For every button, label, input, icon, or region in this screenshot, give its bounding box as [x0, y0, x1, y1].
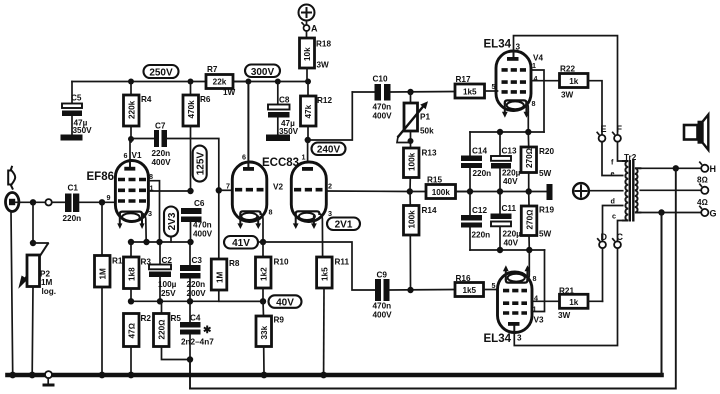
- node V2a grid junction: [216, 187, 222, 193]
- supply terminal +: [299, 5, 315, 21]
- svg-text:220n: 220n: [63, 214, 82, 223]
- wire V2a cathode down: [261, 214, 263, 243]
- wire secondary top to H: [640, 167, 701, 169]
- resistor R13 100k: [404, 148, 437, 192]
- node 2V3 label (vertical): [164, 207, 178, 243]
- wire C to primary tap c: [618, 221, 623, 242]
- wire pin8 suppressor to cathode node: [149, 181, 160, 242]
- svg-text:C5: C5: [71, 94, 82, 103]
- capacitor C8 47u 350V: [266, 82, 299, 142]
- resistor R9 33k: [256, 301, 284, 373]
- chassis bar terminal: [547, 184, 553, 200]
- resistor R15 100k: [410, 176, 470, 199]
- svg-text:G: G: [710, 209, 717, 219]
- wire feedback line: [190, 168, 676, 388]
- svg-text:3: 3: [148, 209, 152, 218]
- svg-text:c: c: [612, 212, 616, 221]
- tube EL34 V3: [484, 265, 544, 345]
- node R5/C4 feedback junction: [187, 356, 193, 362]
- node C terminal: [613, 232, 624, 248]
- node R18/R12 junction: [305, 79, 311, 85]
- capacitor C12 220n: [461, 192, 490, 251]
- wire B+ to primary center tap: [589, 190, 623, 192]
- svg-text:6: 6: [124, 151, 128, 160]
- svg-text:33k: 33k: [260, 325, 269, 339]
- svg-text:C4: C4: [190, 314, 201, 323]
- node C8 junction: [275, 79, 281, 85]
- svg-text:D: D: [601, 232, 608, 242]
- svg-text:E: E: [601, 124, 607, 134]
- node bus jack ground: [9, 372, 16, 379]
- svg-text:40V: 40V: [503, 177, 518, 186]
- tube ECC83 V2b: [291, 153, 332, 230]
- wire V3 anode to transformer: [514, 248, 617, 345]
- capacitor C3 220n 200V: [180, 242, 206, 301]
- wire input to P2: [32, 202, 34, 243]
- svg-text:1k2: 1k2: [260, 267, 269, 281]
- resistor R8 1M: [211, 190, 263, 301]
- node A terminal: [302, 23, 318, 34]
- resistor R5 220ohm: [154, 301, 191, 359]
- resistor R3 1k8: [124, 242, 152, 301]
- svg-text:8Ω: 8Ω: [697, 176, 708, 185]
- ground bus: [8, 373, 662, 378]
- wire V4 g2 pin4 to R22: [531, 80, 560, 82]
- svg-text:2: 2: [328, 182, 332, 191]
- resistor R6 470k: [183, 82, 211, 192]
- resistor R7 22k 1W: [206, 65, 248, 97]
- capacitor C7 220n 400V: [131, 122, 219, 191]
- svg-text:3: 3: [517, 334, 522, 343]
- svg-text:3W: 3W: [317, 61, 330, 70]
- svg-text:C9: C9: [377, 271, 388, 280]
- svg-text:5W: 5W: [539, 230, 552, 239]
- node 40V label: [269, 295, 302, 308]
- svg-text:1k5: 1k5: [463, 87, 477, 96]
- wire jack to junction: [15, 201, 45, 203]
- wire V3 cathode up: [527, 250, 529, 281]
- svg-text:C1: C1: [68, 184, 79, 193]
- svg-text:C13: C13: [502, 147, 517, 156]
- wire cathode line to C14: [469, 132, 471, 156]
- svg-text:e: e: [611, 169, 615, 178]
- wire V4 cathode down: [526, 102, 528, 132]
- svg-text:3W: 3W: [558, 311, 571, 320]
- node feedback junction: [673, 165, 679, 171]
- svg-text:V1: V1: [132, 151, 142, 160]
- svg-text:100k: 100k: [408, 210, 417, 229]
- node 2V1 label: [327, 218, 360, 231]
- svg-text:P1: P1: [420, 113, 430, 122]
- node bus R2: [128, 372, 135, 379]
- svg-text:2V3: 2V3: [167, 212, 178, 230]
- node cathode line EF86: [131, 241, 191, 243]
- svg-text:1M: 1M: [215, 271, 224, 283]
- svg-text:C8: C8: [279, 96, 290, 105]
- svg-text:R6: R6: [200, 95, 211, 104]
- svg-text:220µ: 220µ: [503, 230, 522, 239]
- input arrow icon: [8, 166, 15, 190]
- svg-text:8: 8: [269, 208, 273, 217]
- wire 240V node to C10: [308, 92, 353, 140]
- svg-text:R18: R18: [316, 40, 331, 49]
- svg-text:9: 9: [107, 193, 111, 202]
- svg-text:400V: 400V: [193, 230, 213, 239]
- node 40V rail (output stage): [456, 191, 548, 193]
- node 300V label: [245, 65, 280, 78]
- capacitor C14 220n: [461, 147, 491, 192]
- svg-text:6: 6: [242, 153, 246, 162]
- capacitor C1 220n: [63, 184, 82, 224]
- svg-text:1k: 1k: [569, 298, 579, 307]
- svg-text:H: H: [710, 164, 717, 174]
- capacitor C13 220u 40V: [491, 132, 521, 192]
- svg-text:250V: 250V: [149, 68, 173, 79]
- svg-text:220Ω: 220Ω: [158, 320, 167, 340]
- wire cathode pin3 down: [142, 213, 146, 242]
- svg-text:R10: R10: [274, 258, 289, 267]
- svg-text:C7: C7: [155, 122, 166, 131]
- node screen junction: [187, 188, 193, 194]
- svg-text:300V: 300V: [251, 67, 275, 78]
- node 240V junction: [305, 137, 311, 143]
- node 41V junction: [260, 239, 266, 245]
- svg-text:A: A: [311, 24, 318, 34]
- svg-text:470n: 470n: [193, 221, 212, 230]
- node EF86 anode junction: [128, 136, 134, 142]
- svg-text:R17: R17: [456, 75, 471, 84]
- svg-text:1M: 1M: [99, 268, 108, 280]
- node 4ohm terminal: [697, 184, 708, 207]
- svg-text:1M: 1M: [41, 278, 53, 287]
- node bus R11: [320, 372, 327, 379]
- svg-text:R2: R2: [141, 314, 152, 323]
- wire R18 to rail: [306, 68, 308, 82]
- svg-text:25V: 25V: [161, 289, 176, 298]
- svg-text:R19: R19: [539, 206, 554, 215]
- svg-text:400V: 400V: [373, 311, 393, 320]
- svg-text:log.: log.: [42, 287, 57, 296]
- node V3 cathode line: [470, 249, 545, 251]
- svg-text:400V: 400V: [152, 158, 172, 167]
- svg-text:5: 5: [492, 281, 496, 290]
- wire break to C1: [52, 201, 65, 203]
- resistor R20 270ohm 5W: [521, 132, 554, 192]
- ground symbol: [43, 378, 55, 386]
- svg-text:4Ω: 4Ω: [697, 198, 708, 207]
- svg-text:R7: R7: [207, 65, 218, 74]
- capacitor C11 220u 40V: [491, 192, 522, 251]
- node R6/R7 junction: [188, 79, 194, 85]
- wire feedback down: [189, 360, 191, 389]
- node 250V label: [144, 65, 179, 79]
- svg-text:V2: V2: [273, 183, 283, 192]
- svg-text:R12: R12: [317, 96, 332, 105]
- node H terminal 8ohm: [697, 162, 716, 184]
- capacitor C6 470n 400V: [181, 199, 213, 242]
- resistor R22 1k 3W: [560, 65, 603, 135]
- node 125V label (vertical): [193, 146, 207, 182]
- node 40V-line (R3/C2/C3 bottom rail): [131, 300, 263, 302]
- node break circle: [45, 199, 51, 205]
- speaker icon: [684, 115, 708, 150]
- node V4 cathode line: [470, 131, 544, 133]
- svg-text:200V: 200V: [187, 289, 207, 298]
- svg-text:100µ: 100µ: [158, 280, 177, 289]
- svg-text:2n2–4n7: 2n2–4n7: [181, 338, 214, 347]
- transformer Tr2 core: [630, 160, 634, 222]
- svg-text:350V: 350V: [279, 127, 299, 136]
- svg-text:40V: 40V: [276, 298, 294, 309]
- capacitor C5 47u 350V: [61, 82, 93, 141]
- wire E to primary tap e: [602, 142, 623, 176]
- node V2a anode junction: [245, 79, 251, 85]
- svg-text:8: 8: [532, 99, 536, 108]
- svg-text:22k: 22k: [213, 78, 227, 87]
- svg-text:R14: R14: [422, 206, 437, 215]
- wire D to primary tap d: [603, 206, 623, 242]
- svg-text:R5: R5: [171, 314, 182, 323]
- svg-text:R16: R16: [456, 274, 471, 283]
- svg-text:270Ω: 270Ω: [525, 148, 534, 168]
- node R4 top junction: [128, 79, 134, 85]
- node F terminal: [613, 124, 623, 142]
- resistor R14 100k: [404, 192, 437, 291]
- svg-text:F: F: [617, 124, 623, 134]
- svg-text:C2: C2: [162, 256, 173, 265]
- svg-text:7: 7: [226, 182, 230, 191]
- wire anode to tube V1: [130, 139, 132, 142]
- svg-text:240V: 240V: [317, 145, 341, 156]
- svg-text:C6: C6: [194, 199, 205, 208]
- svg-text:1W: 1W: [223, 88, 236, 97]
- wire V3 g2 pin4 to R21: [532, 300, 560, 302]
- svg-text:220n: 220n: [152, 149, 171, 158]
- node bus R1: [99, 372, 106, 379]
- svg-text:400V: 400V: [373, 112, 393, 121]
- svg-text:100k: 100k: [432, 188, 451, 197]
- svg-text:1k5: 1k5: [462, 286, 476, 295]
- svg-text:ECC83: ECC83: [262, 157, 299, 169]
- svg-text:R21: R21: [559, 287, 574, 296]
- svg-text:5: 5: [492, 82, 496, 91]
- svg-text:3W: 3W: [561, 91, 574, 100]
- svg-text:125V: 125V: [196, 152, 207, 176]
- svg-text:R8: R8: [229, 259, 240, 268]
- svg-text:470k: 470k: [187, 100, 196, 119]
- wire 250V/300V rail: [72, 81, 308, 83]
- node 240V label: [312, 143, 346, 156]
- wire A to R18: [306, 31, 308, 38]
- node grid junction: [99, 199, 105, 205]
- wire V4 anode to transformer: [514, 36, 618, 135]
- svg-text:220n: 220n: [472, 231, 491, 240]
- resistor R21 1k 3W: [558, 287, 603, 321]
- resistor R2 47ohm: [124, 314, 152, 374]
- resistor R1 1M: [95, 202, 123, 373]
- wire grid to pin7: [219, 189, 233, 191]
- svg-text:C14: C14: [472, 147, 487, 156]
- svg-text:R13: R13: [422, 149, 437, 158]
- svg-text:220k: 220k: [128, 100, 137, 119]
- svg-text:C12: C12: [472, 206, 487, 215]
- svg-text:R4: R4: [141, 95, 152, 104]
- node 41V label: [224, 236, 263, 249]
- svg-text:220n: 220n: [187, 280, 206, 289]
- svg-text:d: d: [611, 197, 615, 206]
- svg-text:47Ω: 47Ω: [128, 323, 137, 338]
- svg-text:470n: 470n: [373, 302, 392, 311]
- node 40V junction: [260, 298, 266, 304]
- wire 240V node to V2b anode: [307, 140, 309, 162]
- wire V2b grid pin2 to R15 node: [326, 190, 410, 193]
- svg-text:1k: 1k: [569, 77, 579, 86]
- svg-text:1: 1: [532, 61, 536, 70]
- svg-text:R22: R22: [560, 65, 575, 74]
- wire supply to A: [306, 21, 308, 26]
- node bus earth circle: [45, 371, 52, 378]
- capacitor C9 470n 400V: [373, 271, 456, 320]
- svg-text:C3: C3: [192, 256, 203, 265]
- svg-text:EL34: EL34: [484, 39, 512, 51]
- svg-text:100k: 100k: [408, 152, 417, 171]
- node bus R9: [261, 372, 268, 379]
- svg-text:41V: 41V: [232, 238, 250, 249]
- svg-text:C10: C10: [373, 75, 388, 84]
- svg-text:R15: R15: [427, 176, 442, 185]
- svg-text:220n: 220n: [473, 169, 492, 178]
- svg-text:R9: R9: [274, 316, 285, 325]
- svg-text:3: 3: [516, 43, 521, 52]
- wire jack shield to bus: [11, 212, 13, 374]
- svg-text:R11: R11: [335, 258, 350, 267]
- resistor R19 270ohm 5W: [521, 192, 554, 251]
- capacitor C4 2n2-4n7: [180, 301, 214, 359]
- wire C1 to grid: [79, 201, 115, 203]
- node P1 top junction: [407, 89, 413, 95]
- resistor R4 220k: [124, 82, 152, 140]
- resistor R12 47k: [301, 82, 333, 141]
- svg-text:10k: 10k: [303, 47, 312, 61]
- svg-text:3: 3: [328, 209, 332, 218]
- node C9/R14 junction: [407, 287, 413, 293]
- resistor R10 1k2: [256, 242, 289, 301]
- wire V2b cathode down to R11: [319, 214, 322, 258]
- wire pin1 screen to R6: [149, 190, 191, 192]
- svg-text:270Ω: 270Ω: [525, 210, 534, 230]
- node D terminal: [598, 232, 608, 248]
- svg-text:4: 4: [534, 74, 538, 83]
- wire V3 g3 pin1: [532, 250, 545, 312]
- input jack: [6, 193, 19, 212]
- node B+ center terminal: [573, 183, 589, 199]
- svg-text:V3: V3: [534, 316, 544, 325]
- svg-text:8: 8: [533, 274, 537, 283]
- capacitor C2 100u 25V: [149, 242, 177, 301]
- resistor R11 1k5: [317, 257, 350, 373]
- svg-text:✱: ✱: [203, 325, 212, 336]
- potentiometer P2 1M log: [18, 243, 56, 373]
- tube ECC83 V2a: [226, 82, 299, 230]
- node input junction: [30, 199, 36, 205]
- node bus P2: [29, 372, 36, 379]
- svg-text:50k: 50k: [420, 127, 434, 136]
- svg-text:40V: 40V: [504, 239, 519, 248]
- svg-text:47k: 47k: [304, 104, 313, 118]
- svg-text:1: 1: [302, 153, 306, 162]
- svg-text:8: 8: [149, 172, 153, 181]
- resistor R16 1k5: [455, 274, 498, 297]
- tube EL34 V4: [484, 39, 544, 118]
- tube EF86 V1: [87, 151, 154, 229]
- svg-text:R1: R1: [112, 257, 123, 266]
- svg-text:C11: C11: [502, 204, 517, 213]
- wire D to R21: [602, 248, 604, 301]
- svg-text:EF86: EF86: [87, 171, 115, 183]
- resistor R17 1k5: [455, 75, 498, 98]
- svg-text:350V: 350V: [73, 126, 93, 135]
- svg-text:R20: R20: [539, 147, 554, 156]
- svg-text:1k5: 1k5: [321, 267, 330, 281]
- wire V4 g3 pin1: [531, 70, 544, 132]
- wire secondary bottom to G: [640, 212, 701, 214]
- wire F to primary tap f: [618, 142, 623, 161]
- svg-text:EL34: EL34: [484, 333, 512, 345]
- wire secondary mid tap to 4ohm: [640, 189, 701, 191]
- svg-text:1k8: 1k8: [128, 267, 137, 281]
- node E terminal: [597, 124, 606, 142]
- svg-text:2V1: 2V1: [335, 220, 353, 231]
- transformer Tr2 primary winding: [623, 161, 628, 221]
- svg-text:5W: 5W: [539, 169, 552, 178]
- capacitor C10 470n 400V: [352, 75, 455, 121]
- wire bus riser to G line: [661, 213, 663, 376]
- potentiometer P1 50k: [397, 92, 434, 148]
- resistor R18 10k 3W: [300, 38, 332, 70]
- node R15 junction: [407, 188, 413, 194]
- node P2 wiper junction: [30, 240, 36, 246]
- node ground junction: [658, 209, 664, 215]
- transformer Tr2 secondary winding: [635, 168, 641, 212]
- node G terminal: [700, 206, 717, 218]
- svg-text:470n: 470n: [373, 103, 392, 112]
- wire 41V node to C9: [263, 242, 375, 290]
